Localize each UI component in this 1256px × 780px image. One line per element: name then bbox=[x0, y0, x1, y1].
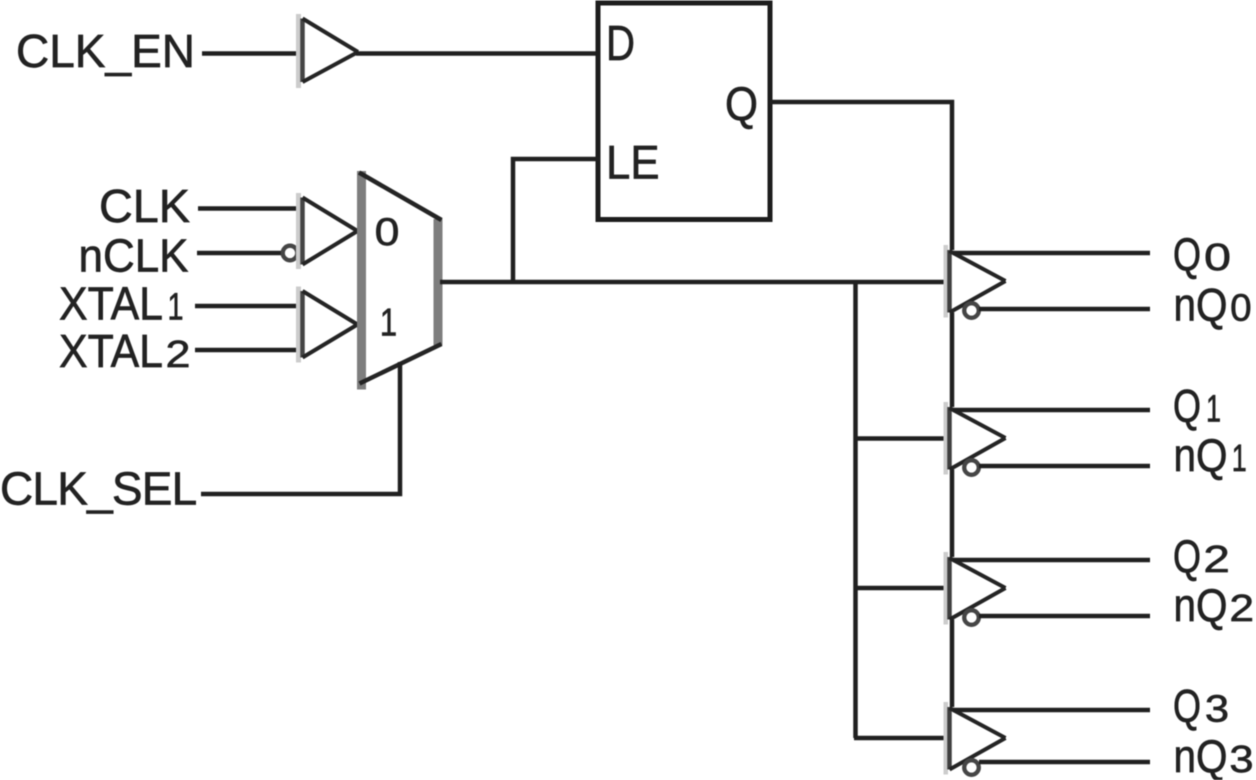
svg-text:0: 0 bbox=[1204, 237, 1231, 279]
wire Q output to buffer chain bbox=[770, 102, 952, 250]
output buffer Q3 bbox=[944, 702, 1006, 775]
svg-text:XTAL: XTAL bbox=[59, 325, 163, 377]
svg-text:Q: Q bbox=[1173, 228, 1201, 280]
wire output nQ3 bbox=[979, 760, 1150, 765]
wire CLK_SEL to mux select bbox=[201, 362, 400, 494]
svg-text:D: D bbox=[606, 16, 635, 71]
buffer U1 (CLK_EN) bbox=[296, 14, 358, 88]
output buffer Q0 bbox=[944, 245, 1006, 318]
wire branch to buffer Q1 bbox=[854, 436, 951, 441]
wire XTAL2 input bbox=[195, 348, 304, 353]
svg-text:LE: LE bbox=[606, 136, 660, 189]
svg-text:Q: Q bbox=[1173, 380, 1201, 432]
svg-text:nCLK: nCLK bbox=[79, 230, 189, 282]
svg-text:2: 2 bbox=[1203, 539, 1230, 581]
svg-text:Q: Q bbox=[1173, 680, 1201, 732]
svg-text:2: 2 bbox=[1229, 588, 1254, 630]
buffer U2 (CLK/nCLK differential) bbox=[296, 193, 358, 269]
svg-text:XTAL: XTAL bbox=[59, 278, 163, 330]
svg-text:CLK: CLK bbox=[99, 180, 190, 232]
wire output Q1 bbox=[953, 408, 1150, 413]
svg-text:2: 2 bbox=[166, 334, 191, 376]
svg-text:3: 3 bbox=[1205, 689, 1229, 731]
output buffer Q1 bbox=[944, 402, 1006, 475]
wire U1 output to D pin bbox=[356, 51, 600, 56]
svg-text:1: 1 bbox=[168, 287, 184, 329]
wire output nQ2 bbox=[979, 614, 1150, 619]
wire nCLK input bbox=[197, 251, 282, 256]
wire output Q2 bbox=[953, 558, 1150, 563]
svg-text:CLK_SEL: CLK_SEL bbox=[0, 463, 197, 515]
wire clock bus vertical bbox=[853, 280, 858, 738]
wire XTAL1 input bbox=[195, 304, 304, 309]
svg-text:1: 1 bbox=[380, 302, 397, 345]
buffer U3 (XTAL oscillator) bbox=[296, 287, 358, 363]
output buffer Q2 bbox=[944, 552, 1006, 625]
svg-text:0: 0 bbox=[1230, 287, 1252, 329]
wire clock trunk (mux output) bbox=[440, 280, 951, 285]
svg-text:1: 1 bbox=[1206, 389, 1221, 431]
wire CLK_EN input bbox=[202, 51, 303, 56]
wire branch to buffer Q3 bbox=[854, 736, 951, 741]
wire output Q3 bbox=[953, 708, 1150, 713]
wire output nQ1 bbox=[979, 464, 1150, 469]
svg-text:Q: Q bbox=[725, 77, 758, 130]
svg-text:nQ: nQ bbox=[1174, 429, 1228, 481]
svg-text:nQ: nQ bbox=[1174, 278, 1228, 330]
wire enable chain vertical segments bbox=[950, 313, 955, 708]
svg-text:Q: Q bbox=[1173, 530, 1201, 582]
svg-text:0: 0 bbox=[375, 211, 400, 254]
svg-text:nQ: nQ bbox=[1174, 730, 1228, 780]
svg-text:1: 1 bbox=[1232, 438, 1247, 480]
svg-text:3: 3 bbox=[1229, 739, 1253, 780]
svg-text:nQ: nQ bbox=[1174, 579, 1228, 631]
mux U4 (clock select) bbox=[359, 171, 442, 390]
wire branch to buffer Q2 bbox=[854, 586, 951, 591]
svg-text:CLK_EN: CLK_EN bbox=[16, 25, 195, 77]
wire CLK input bbox=[198, 206, 304, 211]
wire output nQ0 bbox=[979, 307, 1150, 312]
inversion bubble on nCLK bbox=[283, 246, 298, 261]
wire output Q0 bbox=[953, 251, 1150, 256]
latch U5 (D latch) bbox=[598, 3, 770, 220]
wire LE input bbox=[513, 159, 600, 282]
